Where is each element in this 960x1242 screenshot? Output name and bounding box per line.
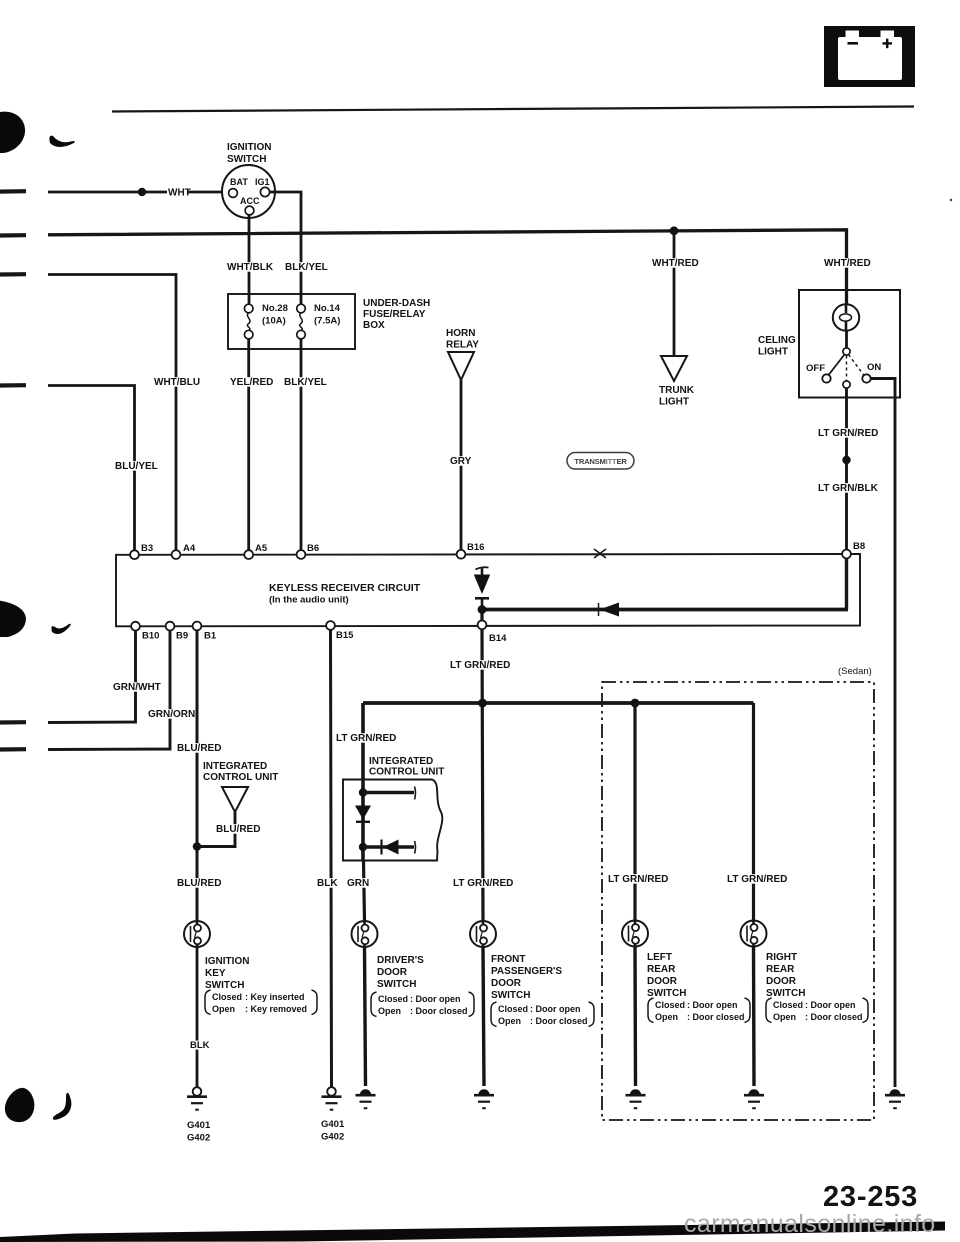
diode above B14 cathode hook bbox=[476, 567, 489, 569]
ICU2 top junction dot bbox=[359, 788, 367, 796]
wire LT GRN/RED into ICU2 bbox=[361, 703, 365, 780]
svg-text:B16: B16 bbox=[467, 542, 484, 553]
svg-text:G401: G401 bbox=[187, 1120, 211, 1131]
wire driver's door switch to ground bbox=[365, 947, 366, 1086]
svg-text:B15: B15 bbox=[336, 630, 354, 641]
svg-text:Open: Open bbox=[498, 1016, 521, 1026]
junction dot diode to thick wire bbox=[478, 605, 487, 614]
svg-text:HORN: HORN bbox=[446, 328, 475, 339]
label IGNITION SWITCH bbox=[227, 142, 271, 165]
svg-text:SWITCH: SWITCH bbox=[205, 980, 244, 991]
svg-text:23-253: 23-253 bbox=[823, 1181, 918, 1213]
label BLU/YEL bbox=[114, 461, 159, 472]
left margin wire stub y235 bbox=[0, 233, 26, 238]
wire BLK ignition switch to ground bbox=[196, 947, 199, 1088]
svg-text:GRN: GRN bbox=[347, 878, 369, 889]
ground G401 G402 ignition bbox=[187, 1087, 207, 1110]
svg-text:LT GRN/RED: LT GRN/RED bbox=[608, 874, 668, 885]
crossover X mark on box top edge bbox=[594, 549, 606, 558]
label INTEGRATED CONTROL UNIT left bbox=[203, 761, 278, 783]
arrowhead left on thick wire bbox=[599, 603, 620, 617]
integrated control unit box torn edge bbox=[343, 780, 442, 861]
svg-text:GRN/WHT: GRN/WHT bbox=[113, 682, 161, 693]
ceiling switch arm to OFF bbox=[829, 355, 845, 376]
label B8 bbox=[853, 541, 865, 552]
ignition switch body bbox=[222, 165, 275, 218]
label left rear door switch state note bbox=[648, 998, 750, 1023]
svg-text:LT GRN/RED: LT GRN/RED bbox=[336, 733, 396, 744]
svg-text:Open: Open bbox=[378, 1006, 401, 1016]
ceiling switch common contact bbox=[843, 348, 850, 355]
svg-text:LIGHT: LIGHT bbox=[758, 347, 788, 358]
svg-text:B6: B6 bbox=[307, 543, 319, 554]
bus wire to ceiling light bbox=[48, 230, 847, 305]
ceiling switch dashed arm down bbox=[846, 356, 848, 381]
svg-text:IGNITION: IGNITION bbox=[227, 142, 271, 153]
svg-text:Closed: Closed bbox=[378, 994, 408, 1004]
scan mark swoosh mid-left bbox=[51, 624, 70, 634]
wire BLK/YEL from IG1 to fuse No.14 bbox=[270, 192, 302, 304]
label YEL/RED bbox=[229, 377, 274, 388]
diode above B14 bbox=[474, 568, 490, 610]
svg-text:A4: A4 bbox=[183, 543, 196, 554]
svg-text:DOOR: DOOR bbox=[766, 976, 797, 987]
scan blob top-left bbox=[0, 112, 25, 153]
svg-text:LIGHT: LIGHT bbox=[659, 397, 689, 408]
wire LT GRN/RED from B14 down bbox=[482, 629, 483, 921]
wire LT GRN/BLK down to connector B8 bbox=[845, 460, 848, 551]
label BLK/YEL upper bbox=[284, 262, 329, 273]
label HORN RELAY bbox=[446, 328, 479, 351]
svg-text:WHT/RED: WHT/RED bbox=[652, 258, 699, 269]
svg-text:TRUNK: TRUNK bbox=[659, 385, 695, 396]
wire YEL/RED fuse No.28 to connector A5 bbox=[247, 339, 250, 551]
wire down to right rear switch bbox=[752, 703, 755, 920]
connector B16 bbox=[457, 550, 466, 559]
connector B1 bbox=[193, 622, 202, 631]
label UNDER-DASH FUSE/RELAY BOX bbox=[363, 298, 430, 331]
horn relay triangle bbox=[448, 352, 474, 380]
label OFF bbox=[806, 363, 825, 374]
svg-text:Open: Open bbox=[773, 1012, 796, 1022]
ICU2 bottom branch wire with diode left and pin tick bbox=[363, 840, 416, 855]
wire right rear door switch to ground bbox=[752, 947, 756, 1087]
keyless receiver circuit box bbox=[116, 554, 860, 626]
ground left rear door bbox=[626, 1089, 646, 1108]
battery icon bbox=[824, 26, 915, 87]
svg-text:PASSENGER'S: PASSENGER'S bbox=[491, 966, 562, 977]
wire B14 junction to connector bbox=[480, 610, 483, 623]
wire GRN from ICU2 to driver door switch bbox=[364, 861, 365, 921]
ceiling light bulb bbox=[833, 304, 859, 330]
wire GRN/WHT from B10 to left edge bbox=[48, 631, 136, 723]
svg-text:LT GRN/RED: LT GRN/RED bbox=[727, 874, 787, 885]
wire WHT from left edge to ignition switch BAT bbox=[48, 191, 229, 194]
connector B15 bbox=[326, 621, 335, 630]
label fuse No.14 (7.5A) bbox=[314, 303, 341, 327]
label A5 bbox=[255, 543, 268, 554]
label LT GRN/BLK bbox=[817, 483, 881, 494]
label INTEGRATED CONTROL UNIT right bbox=[369, 756, 444, 778]
wire BLU/RED from ICU triangle to B1 wire bbox=[197, 812, 235, 847]
svg-text:: Door open: : Door open bbox=[805, 1000, 856, 1010]
connector B14 bbox=[478, 621, 487, 630]
svg-text:B9: B9 bbox=[176, 631, 188, 642]
scan blob bottom-left bbox=[5, 1088, 34, 1122]
watermark carmanualsonline.info bbox=[684, 1210, 936, 1238]
svg-text:CONTROL UNIT: CONTROL UNIT bbox=[203, 772, 278, 783]
svg-text:LEFT: LEFT bbox=[647, 952, 672, 963]
thick horizontal wire y703 to rear door switches bbox=[363, 701, 754, 705]
label ON bbox=[867, 362, 881, 373]
thick wire inside box to diode junction bbox=[482, 608, 848, 612]
label WHT/BLK bbox=[226, 262, 274, 273]
top page rule bbox=[112, 107, 914, 112]
svg-text:A5: A5 bbox=[255, 543, 268, 554]
junction dot LT GRN/RED to LT GRN/BLK bbox=[842, 456, 850, 464]
label B14 bbox=[489, 633, 507, 644]
svg-text:BLK: BLK bbox=[190, 1040, 210, 1051]
svg-text:BLU/RED: BLU/RED bbox=[177, 878, 221, 889]
ceiling light box bbox=[799, 290, 900, 398]
label ignition key switch state note bbox=[205, 990, 317, 1015]
svg-text:B14: B14 bbox=[489, 633, 507, 644]
svg-text:IGNITION: IGNITION bbox=[205, 956, 249, 967]
svg-text:CONTROL UNIT: CONTROL UNIT bbox=[369, 767, 444, 778]
label (Sedan) bbox=[838, 666, 872, 677]
label GRN bbox=[346, 878, 369, 889]
svg-text:DRIVER'S: DRIVER'S bbox=[377, 955, 424, 966]
label LT GRN/RED ceiling bbox=[817, 428, 881, 439]
label LT GRN/RED right rear bbox=[726, 874, 790, 885]
svg-text:No.28: No.28 bbox=[262, 303, 288, 314]
svg-text:KEYLESS RECEIVER CIRCUIT: KEYLESS RECEIVER CIRCUIT bbox=[269, 582, 421, 594]
connector B3 bbox=[130, 550, 139, 559]
ignition switch contact ACC bbox=[245, 206, 254, 215]
label BLK ignition bbox=[189, 1040, 210, 1051]
wire GRY horn relay to connector B16 bbox=[460, 380, 463, 551]
svg-text:SWITCH: SWITCH bbox=[766, 988, 805, 999]
left margin wire stub y385 bbox=[0, 383, 26, 387]
svg-text:G402: G402 bbox=[187, 1133, 210, 1144]
svg-text:(7.5A): (7.5A) bbox=[314, 316, 340, 327]
svg-text:G401: G401 bbox=[321, 1119, 345, 1130]
svg-text:carmanualsonline.info: carmanualsonline.info bbox=[684, 1210, 936, 1238]
ignition switch contact BAT bbox=[229, 189, 238, 198]
switch driver's door bbox=[352, 921, 378, 947]
svg-text:BLK/YEL: BLK/YEL bbox=[285, 262, 328, 273]
label IG1 bbox=[255, 177, 270, 187]
svg-text:IG1: IG1 bbox=[255, 177, 270, 187]
left margin wire stub y722 bbox=[0, 720, 26, 724]
junction dot on WHT wire bbox=[138, 188, 146, 196]
svg-text:DOOR: DOOR bbox=[377, 967, 408, 978]
label A4 bbox=[183, 543, 196, 554]
svg-text:BAT: BAT bbox=[230, 177, 248, 187]
svg-text:DOOR: DOOR bbox=[647, 976, 678, 987]
label TRUNK LIGHT bbox=[659, 385, 695, 408]
label LEFT REAR DOOR SWITCH bbox=[647, 952, 686, 999]
label WHT/RED left bbox=[651, 258, 699, 269]
svg-text:(10A): (10A) bbox=[262, 316, 286, 327]
ground G401 G402 audio BLK bbox=[322, 1087, 342, 1110]
svg-text:BOX: BOX bbox=[363, 320, 385, 331]
svg-text:BLK: BLK bbox=[317, 878, 338, 889]
svg-text:CELING: CELING bbox=[758, 335, 796, 346]
svg-text:RIGHT: RIGHT bbox=[766, 952, 797, 963]
svg-text:: Key removed: : Key removed bbox=[245, 1004, 307, 1014]
connector B8 bbox=[842, 550, 851, 559]
svg-text:TRANSMITTER: TRANSMITTER bbox=[574, 457, 627, 466]
label LT GRN/RED at ICU2 bbox=[335, 733, 399, 744]
label KEYLESS RECEIVER CIRCUIT (In the audio unit) bbox=[269, 582, 421, 606]
svg-text:GRY: GRY bbox=[450, 456, 472, 467]
ground right rear door bbox=[744, 1089, 764, 1108]
label CELING LIGHT bbox=[758, 335, 796, 358]
bottom black bar bbox=[0, 1222, 945, 1242]
left margin wire stub y192 bbox=[0, 189, 26, 194]
label B1 bbox=[204, 631, 217, 642]
wire front passenger's door switch to ground bbox=[483, 947, 484, 1086]
wire GRN/ORN from B9 to left edge bbox=[48, 630, 170, 749]
label right rear door switch state note bbox=[766, 998, 868, 1023]
svg-text:UNDER-DASH: UNDER-DASH bbox=[363, 298, 430, 309]
svg-text:LT GRN/RED: LT GRN/RED bbox=[818, 428, 878, 439]
svg-text:BLK/YEL: BLK/YEL bbox=[284, 377, 327, 388]
connector B6 bbox=[297, 550, 306, 559]
transmitter badge bbox=[567, 453, 634, 470]
svg-text:: Door closed: : Door closed bbox=[687, 1012, 745, 1022]
label BLU/RED upper bbox=[176, 743, 221, 754]
ICU2 bottom junction dot bbox=[359, 843, 367, 851]
connector B10 bbox=[131, 622, 140, 631]
label ACC bbox=[240, 196, 260, 206]
svg-text:REAR: REAR bbox=[766, 964, 795, 975]
svg-text:OFF: OFF bbox=[806, 363, 825, 374]
svg-text:: Door closed: : Door closed bbox=[805, 1012, 863, 1022]
svg-text:: Door open: : Door open bbox=[530, 1004, 581, 1014]
svg-text:SWITCH: SWITCH bbox=[647, 988, 686, 999]
ground driver's door bbox=[356, 1089, 376, 1108]
svg-text:ON: ON bbox=[867, 362, 881, 373]
svg-text:: Key inserted: : Key inserted bbox=[245, 992, 305, 1002]
label B15 bbox=[336, 630, 354, 641]
svg-text:YEL/RED: YEL/RED bbox=[230, 377, 273, 388]
left margin wire stub y274 bbox=[0, 272, 26, 276]
ICU2 main vertical wire bbox=[361, 780, 365, 861]
svg-text:G402: G402 bbox=[321, 1132, 344, 1143]
svg-text:LT GRN/BLK: LT GRN/BLK bbox=[818, 483, 879, 494]
label LT GRN/RED below B14 bbox=[449, 660, 513, 671]
svg-text:KEY: KEY bbox=[205, 968, 226, 979]
label LT GRN/RED front passenger bbox=[452, 878, 516, 889]
label GRY bbox=[449, 456, 472, 467]
wire WHT/RED down to trunk light bbox=[673, 231, 676, 356]
svg-text:LT GRN/RED: LT GRN/RED bbox=[453, 878, 513, 889]
svg-text:WHT/BLU: WHT/BLU bbox=[154, 377, 200, 388]
svg-text:LT GRN/RED: LT GRN/RED bbox=[450, 660, 510, 671]
svg-text:Closed: Closed bbox=[212, 992, 242, 1002]
svg-text:(In the audio unit): (In the audio unit) bbox=[269, 595, 349, 606]
ground ceiling light circuit bbox=[885, 1089, 905, 1108]
label WHT/BLU bbox=[153, 377, 200, 388]
svg-text:WHT/BLK: WHT/BLK bbox=[227, 262, 274, 273]
label IGNITION KEY SWITCH bbox=[205, 956, 249, 991]
svg-text:SWITCH: SWITCH bbox=[227, 154, 266, 165]
svg-text:: Door open: : Door open bbox=[410, 994, 461, 1004]
ceiling switch contact OFF bbox=[822, 374, 830, 382]
label RIGHT REAR DOOR SWITCH bbox=[766, 952, 805, 999]
label B3 bbox=[141, 543, 153, 554]
integrated control unit triangle bbox=[222, 787, 248, 812]
switch right rear door bbox=[741, 921, 767, 947]
svg-text:WHT: WHT bbox=[168, 188, 191, 199]
label BAT bbox=[230, 177, 248, 187]
ceiling switch contact ON bbox=[862, 374, 870, 382]
wire BLK/YEL fuse No.14 to connector B6 bbox=[300, 339, 303, 551]
svg-text:: Door closed: : Door closed bbox=[410, 1006, 468, 1016]
svg-text:INTEGRATED: INTEGRATED bbox=[203, 761, 267, 772]
page number 23-253 bbox=[823, 1181, 918, 1213]
label G401 G402 mid bbox=[321, 1119, 345, 1143]
svg-text:SWITCH: SWITCH bbox=[377, 979, 416, 990]
label front passenger's door switch state note bbox=[491, 1002, 594, 1027]
left margin wire stub y749 bbox=[0, 747, 26, 751]
svg-text:BLU/RED: BLU/RED bbox=[177, 743, 221, 754]
svg-text:WHT/RED: WHT/RED bbox=[824, 258, 871, 269]
wire down to left rear switch bbox=[633, 703, 636, 920]
ICU2 diode down bbox=[355, 806, 371, 822]
label WHT/RED right bbox=[823, 258, 871, 269]
fuse No.14 bbox=[297, 304, 306, 339]
connector A5 bbox=[244, 550, 253, 559]
svg-text:BLU/RED: BLU/RED bbox=[216, 824, 260, 835]
svg-text:Closed: Closed bbox=[498, 1004, 528, 1014]
svg-text:B8: B8 bbox=[853, 541, 865, 552]
label B10 bbox=[142, 631, 159, 642]
switch ignition key bbox=[184, 921, 210, 947]
svg-text:: Door open: : Door open bbox=[687, 1000, 738, 1010]
tiny speck right bbox=[950, 199, 952, 201]
svg-text:SWITCH: SWITCH bbox=[491, 990, 530, 1001]
label BLK b15 bbox=[316, 878, 338, 889]
label FRONT PASSENGER'S DOOR SWITCH bbox=[491, 954, 562, 1001]
svg-text:REAR: REAR bbox=[647, 964, 676, 975]
svg-text:GRN/ORN: GRN/ORN bbox=[148, 709, 195, 720]
label BLU/RED mid bbox=[215, 824, 260, 835]
svg-text:B10: B10 bbox=[142, 631, 159, 642]
ceiling switch bottom contact bbox=[843, 381, 850, 388]
svg-text:B1: B1 bbox=[204, 631, 217, 642]
ignition switch contact IG1 bbox=[260, 187, 269, 196]
svg-text:Open: Open bbox=[212, 1004, 235, 1014]
label driver's door switch state note bbox=[371, 992, 474, 1017]
svg-text:ACC: ACC bbox=[240, 196, 260, 206]
ground front passenger's door bbox=[474, 1089, 494, 1108]
svg-text:INTEGRATED: INTEGRATED bbox=[369, 756, 433, 767]
label LT GRN/RED left rear bbox=[607, 874, 671, 885]
label GRN/ORN bbox=[147, 709, 195, 720]
label WHT bbox=[167, 188, 191, 199]
switch left rear door bbox=[622, 921, 648, 947]
svg-text:Closed: Closed bbox=[773, 1000, 803, 1010]
svg-text:Open: Open bbox=[655, 1012, 678, 1022]
wire from ON contact to right side down bbox=[871, 379, 895, 1088]
scan mark swoosh bottom-left bbox=[53, 1093, 71, 1120]
sedan option dashed box bbox=[602, 682, 874, 1120]
svg-text:RELAY: RELAY bbox=[446, 340, 479, 351]
junction dot ICU wire to B1 wire bbox=[193, 842, 202, 851]
under-dash fuse/relay box bbox=[228, 294, 355, 349]
svg-text:Closed: Closed bbox=[655, 1000, 685, 1010]
label fuse No.28 (10A) bbox=[262, 303, 288, 327]
label BLU/RED lower bbox=[176, 878, 221, 889]
junction dot at B14 wire bbox=[478, 699, 487, 708]
svg-text:FRONT: FRONT bbox=[491, 954, 525, 965]
svg-text:B3: B3 bbox=[141, 543, 153, 554]
wire WHT/BLU from left edge to connector A4 bbox=[48, 275, 176, 552]
wire BLU/RED from B1 down to ignition key switch bbox=[196, 630, 199, 921]
svg-text:No.14: No.14 bbox=[314, 303, 341, 314]
svg-text:: Door closed: : Door closed bbox=[530, 1016, 588, 1026]
label BLK/YEL lower bbox=[283, 377, 328, 388]
label GRN/WHT bbox=[112, 682, 161, 693]
wire BLK from B15 down to ground bbox=[331, 630, 332, 1087]
label B9 bbox=[176, 631, 188, 642]
scan mark swoosh top-left bbox=[49, 136, 74, 147]
svg-text:FUSE/RELAY: FUSE/RELAY bbox=[363, 309, 426, 320]
label B16 bbox=[467, 542, 484, 553]
connector A4 bbox=[172, 550, 181, 559]
ICU2 top branch wire with pin tick bbox=[363, 787, 416, 800]
connector B9 bbox=[166, 622, 175, 631]
switch front passenger's door bbox=[470, 921, 496, 947]
label G401 G402 left bbox=[187, 1120, 211, 1144]
ceiling switch dashed arm to ON bbox=[849, 355, 865, 376]
wire left rear door switch to ground bbox=[633, 947, 637, 1087]
svg-text:(Sedan): (Sedan) bbox=[838, 666, 872, 677]
junction dot trunk light branch bbox=[670, 226, 679, 235]
wire WHT/BLK from ACC to fuse No.28 bbox=[248, 215, 251, 304]
wire LT GRN/RED ceiling switch down to junction bbox=[845, 388, 848, 460]
wire thick from B8 down inside box bbox=[845, 558, 848, 609]
wire bulb to switch common bbox=[845, 331, 848, 349]
svg-text:BLU/YEL: BLU/YEL bbox=[115, 461, 158, 472]
junction dot left rear branch bbox=[631, 699, 640, 708]
label B6 bbox=[307, 543, 319, 554]
scan blob mid-left bbox=[0, 600, 26, 637]
fuse No.28 bbox=[244, 304, 253, 339]
wire BLU/YEL from left edge to connector B3 bbox=[48, 386, 135, 552]
svg-text:DOOR: DOOR bbox=[491, 978, 522, 989]
label DRIVER'S DOOR SWITCH bbox=[377, 955, 424, 990]
trunk light triangle bbox=[661, 356, 687, 381]
